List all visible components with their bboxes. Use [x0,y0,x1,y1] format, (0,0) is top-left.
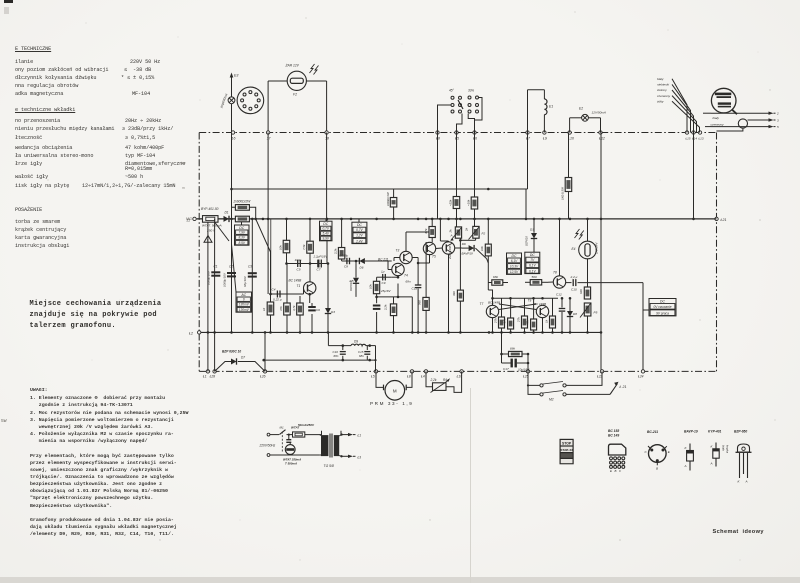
scan mark top-left [4,0,13,3]
svg-text:BZP610: BZP610 [349,281,353,291]
dash-dot border right [716,133,718,372]
svg-text:130mV: 130mV [239,308,250,312]
svg-text:5W: 5W [1,418,7,424]
svg-text:C9: C9 [382,281,386,285]
svg-text:Ł26: Ł26 [260,375,266,379]
svg-text:m: m [182,186,185,190]
svg-text:DC: DC [512,254,517,258]
svg-text:MG: MG [186,217,192,221]
svg-text:BZP610: BZP610 [525,236,529,246]
svg-text:BC 149B: BC 149B [488,301,500,305]
resistor R25 [517,298,528,332]
transistor T5 [423,242,436,258]
pinout BC-211 package [645,430,671,471]
resistor R13 [292,296,303,332]
wire C5 row [285,262,327,265]
resistor R20 68k [488,275,508,285]
svg-text:Ł4: Ł4 [421,375,425,379]
svg-text:6,1V: 6,1V [529,264,536,268]
coil E1 [528,90,554,133]
svg-text:10μ/16V: 10μ/16V [518,368,530,372]
svg-text:Ł28: Ł28 [210,375,216,379]
wire cross coupling [499,304,536,310]
resistor R6 22k [449,197,460,219]
svg-text:biała: biała [722,445,726,451]
svg-text:biały: biały [713,116,720,120]
svg-text:12V/50mA: 12V/50mA [592,111,606,115]
resistor R1 2x600 [232,200,256,219]
svg-text:0,7V: 0,7V [322,227,329,231]
pinout KYP-401 diode [708,429,729,466]
svg-text:PRM 33- 1,9: PRM 33- 1,9 [370,401,413,406]
svg-text:Ł12: Ł12 [599,136,605,140]
svg-text:BAVP-19: BAVP-19 [684,429,698,433]
svg-text:Ł7: Ł7 [526,136,531,140]
svg-text:E3: E3 [234,74,238,78]
svg-text:Ł14: Ł14 [692,136,697,140]
switch M1 [270,426,293,453]
svg-text:50mA/250V: 50mA/250V [298,423,315,427]
svg-text:D7: D7 [241,356,245,360]
svg-text:D3: D3 [331,310,335,314]
voltage table DC2 [320,219,333,241]
transistor T8 [548,219,566,288]
svg-text:Ł21: Ł21 [721,218,727,222]
capacitor C2 [223,219,237,333]
svg-text:4,7k: 4,7k [503,318,507,324]
lamp E2 with wires [570,107,606,133]
diode D2 [325,262,335,332]
svg-text:czerwony: czerwony [711,122,725,126]
resistor R9 10k [279,219,290,264]
resistor R18 15k [480,219,493,305]
diode D6 [359,258,391,270]
fuse tube F2 [285,64,319,97]
wire Z2 to border [231,104,233,133]
svg-text:ŻAR 24V: ŻAR 24V [595,242,599,255]
svg-text:A: A [450,234,453,238]
svg-text:Ł8: Ł8 [407,375,411,379]
capacitor C4 [271,288,304,302]
capacitor C5 100p [295,258,302,272]
svg-text:4,7k: 4,7k [424,228,428,234]
svg-text:Ł1: Ł1 [203,375,207,379]
wire node18 vertical [326,133,328,264]
svg-text:5,4V: 5,4V [322,232,329,236]
wire diagonals input [215,219,271,294]
transistor T7 [480,301,501,333]
trimmer P1 [449,219,462,241]
voltage selector plug [270,434,320,466]
resistor R27 [545,298,556,332]
svg-text:D3: D3 [530,228,534,232]
svg-text:biały: biały [657,77,664,81]
table AC [236,292,252,312]
svg-text:BAVP19: BAVP19 [462,252,474,256]
resistor R26 [526,298,537,332]
svg-text:2,2k: 2,2k [384,304,388,311]
resistor R17 [424,219,435,242]
svg-text:560: 560 [418,300,422,305]
pinout BAVP-19 diode [684,429,698,470]
capacitor C3 [243,218,257,333]
svg-text:T 500mA: T 500mA [285,462,297,466]
svg-text:BYP-401-50: BYP-401-50 [201,207,219,211]
junctions on bus Ł2 [207,331,603,334]
transformer TR1 [305,431,341,468]
svg-text:BC 149B: BC 149B [289,279,303,283]
svg-text:ŻAR 12V: ŻAR 12V [285,64,300,68]
svg-text:czerwony: czerwony [657,94,671,98]
svg-text:BZP-650: BZP-650 [734,429,747,433]
cartridge wire labels [656,77,671,103]
svg-text:2: 2 [776,112,779,116]
svg-text:68k: 68k [493,275,498,279]
label plate STOP [560,439,574,465]
svg-text:T4: T4 [404,274,408,278]
wire F2 frame [268,81,327,133]
svg-text:4,7k: 4,7k [292,305,296,311]
fuse F4 mains [291,423,315,437]
wire node16 vertical [231,133,233,219]
svg-text:68n: 68n [359,354,364,358]
resistor R2 [235,216,249,222]
svg-text:D9: D9 [354,339,358,343]
voltage table DC5 [525,252,540,273]
wire T1 emitter [308,293,311,303]
svg-text:2,2k: 2,2k [334,248,338,255]
svg-text:47k: 47k [526,320,530,325]
svg-text:T3: T3 [396,249,400,253]
voltage table DC4 [507,253,522,274]
svg-text:Ł15: Ł15 [686,136,691,140]
svg-text:C11: C11 [412,287,418,291]
wire gnd left pair [208,219,215,333]
svg-text:220V/50Hz: 220V/50Hz [259,443,276,447]
svg-text:47k: 47k [279,306,283,311]
svg-text:C8: C8 [344,264,348,268]
fuse F3 input [201,207,222,233]
svg-text:M: M [393,388,397,393]
svg-text:C6: C6 [316,308,320,312]
svg-text:T8: T8 [553,271,557,275]
wire T5 T6 base link [417,248,442,264]
resistor R8 1k [561,133,572,219]
resistor R24 [503,298,514,332]
svg-text:E: E [668,450,671,454]
svg-text:C4: C4 [272,288,276,292]
svg-text:5: 5 [777,125,779,129]
pinout BC158 package [608,429,626,473]
svg-text:P2: P2 [482,232,486,236]
wire selector verticals [438,133,475,219]
svg-text:16: 16 [232,136,236,140]
wire trimmer link [461,238,476,240]
diode D1 [218,211,235,223]
svg-text:M1: M1 [280,426,284,430]
lamp Z2 [219,93,235,109]
svg-text:R4: R4 [443,378,447,382]
svg-text:T9: T9 [528,299,532,303]
capacitor C7 [313,255,329,272]
svg-text:Ł2: Ł2 [189,332,193,336]
resistor R22 [579,259,591,299]
svg-text:niebieski: niebieski [657,83,669,87]
resistor R10 [302,219,313,276]
svg-text:68n: 68n [406,280,411,284]
capacitor C6 [308,303,320,332]
svg-text:1kΩ/0,5W: 1kΩ/0,5W [561,187,565,200]
capacitor C20 [373,294,381,333]
bottom scan strip [0,577,800,583]
svg-text:Ł1: Ł1 [358,434,362,438]
svg-text:DC: DC [239,226,244,230]
svg-text:68k: 68k [510,347,515,351]
resistor R11 [262,293,274,333]
svg-text:kropka: kropka [725,445,729,454]
wire to Ł24 [578,283,644,372]
svg-text:C17: C17 [503,367,509,371]
svg-text:BZP 630C 10: BZP 630C 10 [222,350,241,354]
svg-text:T7: T7 [480,302,484,306]
svg-text:9,9V: 9,9V [322,237,329,241]
node Ł21 [715,217,727,222]
svg-text:C3: C3 [248,265,252,269]
svg-text:≈18k: ≈18k [467,199,471,206]
svg-text:0,7V: 0,7V [356,228,363,232]
svg-text:E1: E1 [549,105,553,109]
svg-text:C: C [645,450,648,454]
svg-text:C: C [619,469,622,473]
zener D3 [525,219,538,252]
wire secondary upper [339,433,361,438]
transistor T9 [528,299,549,333]
svg-text:25μ/6V: 25μ/6V [380,289,391,293]
svg-text:M2: M2 [549,398,554,402]
wire T3 collector link [406,231,434,234]
wire 189 horizontal [230,133,527,191]
svg-text:prąd/30mA: prąd/30mA [219,93,229,109]
svg-text:68n: 68n [334,354,339,358]
svg-text:17: 17 [267,136,272,140]
zener D5 [349,260,359,297]
diode D8 [567,297,577,332]
resistor R19 390 [452,239,463,332]
paper fold line [470,388,471,583]
svg-text:68μ/10V: 68μ/10V [243,275,247,287]
diode D7 [215,350,265,372]
svg-text:27k: 27k [494,318,498,324]
capacitor C16 [333,346,346,361]
svg-text:1k: 1k [262,307,266,311]
svg-text:2,2 μ: 2,2 μ [570,275,578,279]
svg-text:100kΩ/1W: 100kΩ/1W [386,192,390,206]
svg-text:BC 158: BC 158 [608,429,619,433]
svg-text:STAB 33: STAB 33 [560,448,573,452]
voltage table DC3 [352,219,367,244]
svg-text:130mV: 130mV [239,303,250,307]
wire Ł1 stub [208,332,265,371]
transistor T4 [378,258,408,278]
svg-text:10k: 10k [369,284,373,289]
potentiometer R4 [426,371,462,392]
svg-text:9V praca: 9V praca [656,312,669,316]
svg-text:F2: F2 [293,93,297,97]
svg-text:C1: C1 [214,265,218,269]
svg-text:żółty: żółty [656,99,664,103]
svg-text:2,2k: 2,2k [430,378,437,382]
inductor D9 filter [328,332,375,371]
svg-text:K: K [738,480,741,484]
dash-dot border left [198,133,200,372]
input J1 [186,217,203,222]
resistor R7 18k [467,197,478,219]
resistor R5 100k [386,189,397,219]
svg-text:K: K [685,446,688,450]
capacitor C10 [566,275,578,292]
transistor T3 [394,232,412,264]
wire return 360 [262,359,376,362]
svg-text:2x600Ω/2W: 2x600Ω/2W [233,200,252,204]
svg-text:0,068μ: 0,068μ [339,254,349,258]
junctions on bus Ł21 [230,218,695,221]
svg-text:Ł 21: Ł 21 [620,385,627,389]
svg-text:Ł13: Ł13 [699,136,704,140]
margin cut text [1,161,192,424]
wire C8 row [342,259,360,261]
capacitor C9 [377,270,400,286]
svg-text:Ł9: Ł9 [543,136,547,140]
motor M [370,371,413,405]
resistor R28 68k [502,332,529,371]
wire multivib top [491,297,558,300]
resistor R14 10k [369,277,392,293]
svg-text:27k: 27k [517,317,521,323]
cartridge pickup head [711,88,737,114]
svg-text:D8: D8 [573,312,577,316]
svg-text:T5: T5 [432,255,436,259]
nodes on top border [231,131,704,141]
svg-text:1000μ/10V: 1000μ/10V [223,272,227,287]
switch M2 [527,371,627,401]
svg-text:C2: C2 [229,265,233,269]
wire secondary lower [339,455,361,460]
svg-text:E: E [610,469,612,473]
svg-text:3: 3 [777,118,779,122]
svg-text:BC-211: BC-211 [647,430,658,434]
capacitor C17 [500,353,530,372]
voltage table DC1 [235,222,250,245]
svg-text:D6: D6 [360,265,364,269]
svg-text:B: B [615,469,617,473]
resistor R12 [279,264,290,333]
svg-text:7,9V: 7,9V [238,231,245,235]
svg-text:33⅓: 33⅓ [468,89,475,93]
svg-text:1k: 1k [545,319,549,323]
svg-text:Ł5: Ł5 [371,375,375,379]
wire bus Ł2 [189,331,602,336]
resistor R21 560 [525,275,548,285]
svg-text:7,5k: 7,5k [302,244,306,250]
svg-text:T1: T1 [297,284,301,288]
svg-text:560: 560 [532,275,537,279]
wire bus Ł21 [197,218,717,220]
diode D4 [455,242,474,255]
svg-text:10k: 10k [480,246,484,251]
svg-text:8,3V: 8,3V [238,236,245,240]
svg-text:2,4V: 2,4V [355,239,363,243]
svg-text:BC 211: BC 211 [378,258,389,262]
svg-text:P5: P5 [594,311,598,315]
dash-dot border top [199,132,716,134]
svg-text:zielony: zielony [656,88,667,92]
trimmer P2 [465,219,486,240]
svg-text:C7: C7 [317,268,321,272]
wire T6 emitter down [448,254,450,332]
output jack with arrows [703,112,779,132]
mains terminals [259,433,276,456]
svg-text:DC: DC [357,223,362,227]
wire E3 feed arrow [230,73,239,97]
svg-text:KYP-401: KYP-401 [708,429,722,433]
connector speed selector [438,89,483,133]
capacitor C1 [207,265,221,286]
svg-text:A: A [745,480,748,484]
wire Ł14 to bus [693,133,695,219]
voltage table DC6 [643,299,676,316]
svg-text:2k: 2k [465,227,469,232]
svg-text:2,2μF/16V: 2,2μF/16V [313,255,329,259]
svg-text:0: 0 [243,298,245,302]
resistor R15 [384,297,397,333]
svg-text:390: 390 [452,291,456,296]
svg-text:6,1V: 6,1V [529,269,536,273]
svg-text:tne: tne [181,161,186,165]
capacitor C15 [358,346,370,361]
svg-text:A: A [684,464,687,468]
trimmer P5 [580,303,598,332]
svg-text:K: K [711,444,714,448]
svg-text:0,22 μ: 0,22 μ [273,298,282,302]
transistor T1 [289,276,316,294]
svg-text:≈22k: ≈22k [449,199,453,206]
connector motor socket [237,87,264,114]
svg-text:0V czuwanie: 0V czuwanie [653,305,671,309]
wire node17 vertical [268,133,271,295]
resistor R30 [334,219,345,259]
svg-text:C10: C10 [571,287,577,291]
warning triangle [204,236,212,243]
svg-text:BC 149: BC 149 [608,434,619,438]
lamp E4 strobe [572,219,599,259]
svg-text:AC: AC [240,293,246,297]
transistor T6 [440,219,454,260]
svg-text:Ł24: Ł24 [638,375,644,379]
svg-text:D6: D6 [462,242,466,246]
svg-text:TG 5/8: TG 5/8 [324,464,334,468]
wire Ł12 vertical [600,133,602,372]
svg-text:A: A [710,462,713,466]
svg-text:10,3V: 10,3V [510,265,519,269]
capacitor C11 [406,258,422,333]
svg-text:1μ: 1μ [381,270,385,274]
capacitor C12 [556,293,565,333]
svg-text:1000μ/16V: 1000μ/16V [207,270,211,285]
resistor R23 [494,298,505,332]
svg-text:45°: 45° [449,89,455,93]
cartridge lead wires [672,79,700,133]
svg-text:C12: C12 [556,293,562,297]
